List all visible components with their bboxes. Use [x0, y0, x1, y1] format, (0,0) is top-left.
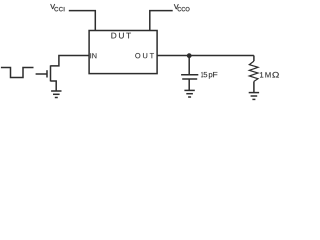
wire capacitor top lead — [188, 56, 190, 75]
wire drain to IN pin — [51, 56, 90, 66]
wire OUT net — [157, 55, 254, 57]
wire resistor bottom lead — [253, 81, 255, 92]
transistor Q1 channel — [50, 65, 52, 81]
DUT box U1 — [89, 31, 157, 74]
label 1 Mohm value — [260, 72, 263, 77]
ground (resistor) — [249, 93, 259, 100]
pin label OUT — [135, 53, 154, 58]
wire gate lead — [36, 73, 47, 75]
wire capacitor bottom lead — [188, 79, 190, 90]
wire VCCI — [69, 11, 96, 31]
wire source lead — [51, 81, 57, 91]
capacitor C1 top plate — [181, 74, 198, 76]
pin label IN — [90, 53, 96, 58]
node junction dot — [187, 53, 192, 58]
label VCCI — [50, 4, 55, 9]
wire VCCO — [150, 11, 173, 31]
label VCCO — [174, 4, 179, 9]
capacitor C1 bottom plate — [182, 78, 197, 80]
input pulse waveform — [1, 68, 34, 78]
ground (capacitor) — [184, 90, 194, 97]
label 15 pF — [201, 72, 203, 77]
ground (transistor source) — [51, 91, 61, 98]
resistor R1 — [249, 61, 258, 81]
wire resistor top lead — [253, 56, 255, 62]
transistor Q1 gate bar — [46, 70, 48, 77]
label DUT — [111, 33, 131, 39]
